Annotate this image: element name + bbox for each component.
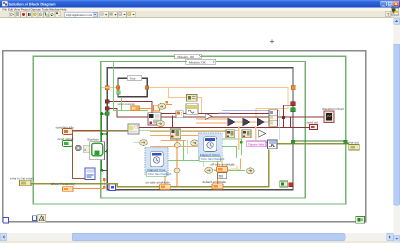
conversion oval node 1 bbox=[158, 103, 166, 109]
scaling icon A bbox=[226, 130, 235, 138]
wire: peach from case D to right edge bbox=[147, 88, 288, 118]
wire: orange mid horizontals bbox=[150, 132, 226, 147]
wire: light green left verticals bbox=[114, 62, 122, 111]
sine icon bbox=[186, 104, 198, 115]
svg-text:Time has Elapsed: Time has Elapsed bbox=[147, 172, 171, 176]
junction dots orange bbox=[103, 178, 106, 181]
svg-text:True: True bbox=[130, 76, 136, 80]
iteration terminal i (outer loop) bbox=[3, 218, 8, 223]
h-scroll thumb bbox=[72, 233, 345, 240]
toolbar help button bbox=[386, 11, 391, 16]
small orange box node bbox=[154, 105, 160, 111]
svg-text:Mission, OK: Mission, OK bbox=[189, 60, 207, 64]
h-scroll right arrow bbox=[387, 233, 394, 240]
svg-text:Time has Elapsed: Time has Elapsed bbox=[200, 157, 224, 161]
maroon tunnel squares loop C left bbox=[105, 100, 109, 103]
generator icon bbox=[128, 124, 139, 134]
mouse cursor bbox=[270, 40, 274, 44]
toolbar reorder button bbox=[127, 12, 136, 17]
waveform chart terminal bbox=[324, 111, 334, 122]
wire: peach into case D bbox=[102, 87, 117, 89]
wire: peach chain into generator icons bbox=[168, 88, 201, 113]
svg-text:default amplitude: default amplitude bbox=[203, 180, 227, 184]
while loop C (inner dark) bbox=[107, 68, 293, 190]
VI icon bbox=[391, 8, 398, 15]
wire: maroon U left vertical bbox=[172, 116, 174, 128]
svg-text:error in (no error): error in (no error) bbox=[10, 176, 34, 180]
dynamic data terminal icon bbox=[176, 111, 183, 118]
square wave VI icon bbox=[268, 140, 277, 149]
toolbar bbox=[0, 11, 400, 18]
wire: dark green right side bbox=[294, 140, 345, 142]
scaling icon B bbox=[242, 130, 251, 138]
wire: lavender dynamic bbox=[222, 111, 279, 140]
elapsed time 2 express VI bbox=[198, 133, 224, 161]
maximize button bbox=[387, 1, 393, 6]
off-axle amplitude constant bbox=[217, 167, 228, 172]
sampling info constant bbox=[63, 129, 73, 135]
DBL conversion box bbox=[218, 173, 227, 179]
toolbar step-over button bbox=[49, 12, 54, 17]
dark green junction dots bbox=[100, 112, 102, 114]
oval node right of elapsed1 top bbox=[174, 143, 180, 148]
menu bar bbox=[0, 7, 400, 11]
wire: peach stray corner bbox=[231, 165, 237, 168]
oval node right area bbox=[247, 168, 255, 174]
comparison triangle node bbox=[205, 113, 212, 119]
metronome wait icon bbox=[38, 214, 46, 222]
toolbar distribute button bbox=[109, 12, 118, 17]
toolbar align button bbox=[100, 12, 109, 17]
or gate circle bbox=[75, 145, 81, 151]
wire: orange vertical from wheel frequency bbox=[103, 179, 105, 189]
svg-text:on-axle amplitude: on-axle amplitude bbox=[146, 180, 171, 184]
v-scroll up arrow bbox=[394, 18, 400, 25]
bottom strip bbox=[0, 241, 400, 243]
title bar icon bbox=[2, 1, 8, 6]
add triangle 2 bbox=[243, 118, 250, 126]
svg-text:error out: error out bbox=[347, 141, 359, 145]
wire: maroon up to tunnel bbox=[283, 105, 291, 117]
vertical scrollbar bbox=[394, 18, 400, 243]
waveform generator icon upper bbox=[187, 95, 198, 102]
toolbar abort button bbox=[21, 12, 26, 17]
wire: brown cluster sampling info bbox=[73, 130, 128, 132]
on-axle amplitude constant bbox=[160, 184, 171, 189]
toolbar step-out button bbox=[55, 12, 60, 17]
build array node bbox=[269, 110, 277, 126]
svg-text:D0: D0 bbox=[219, 174, 224, 178]
oval node below elapsed2 bbox=[205, 167, 213, 173]
case structure A (outer green) bbox=[33, 56, 346, 204]
tunnel orange on loop C right bbox=[291, 85, 295, 89]
add triangle 3 bbox=[257, 118, 264, 126]
oval node below sine bbox=[191, 140, 199, 146]
what analysis enum bbox=[131, 106, 140, 111]
wheel frequency constant bbox=[63, 186, 73, 192]
reset signal constant bbox=[63, 140, 73, 146]
toolbar retain-values button bbox=[38, 12, 43, 17]
svg-text:?: ? bbox=[387, 12, 390, 17]
wire: maroon chart feed bbox=[277, 116, 325, 118]
v-scroll thumb bbox=[394, 44, 400, 205]
toolbar highlight button bbox=[32, 12, 37, 17]
square wave VI label bbox=[247, 141, 269, 147]
toolbar pause button bbox=[27, 12, 32, 17]
green tunnel on case D left bbox=[117, 91, 120, 94]
wire: maroon upper from tunnel bbox=[109, 101, 269, 113]
v-scroll down arrow bbox=[394, 235, 400, 242]
green junction dot bbox=[240, 141, 243, 144]
Boolean subVI bbox=[90, 142, 105, 160]
toolbar font combo bbox=[65, 12, 98, 17]
error out terminal bbox=[349, 145, 359, 150]
send out terminal bbox=[310, 124, 318, 129]
wire: maroon second from tunnel bbox=[110, 108, 270, 117]
conversion oval node 2 bbox=[156, 121, 164, 127]
svg-text:File Edit View Project Ope: File Edit View Project Operate Tools Win… bbox=[3, 7, 67, 11]
wire: maroon send out branch bbox=[283, 117, 309, 127]
toolbar resize button bbox=[118, 12, 127, 17]
tunnel orange on loop C left (top) bbox=[105, 86, 109, 90]
wire: orange vertical bands bbox=[239, 126, 256, 150]
elapsed time 1 express VI bbox=[145, 147, 172, 176]
wire: dark green vertical bbox=[100, 112, 102, 172]
wire: orange from wheel frequency constant bbox=[73, 188, 105, 190]
maroon tunnel on loop C right bbox=[291, 102, 295, 106]
case structure B (inner green) bbox=[101, 61, 305, 198]
toolbar step-into button bbox=[44, 12, 49, 17]
wire: light green elapsed1 bbox=[134, 140, 204, 167]
oval node left of elapsed1 bbox=[140, 140, 148, 146]
default amplitude constant bbox=[212, 184, 223, 189]
wire: orange default up bbox=[217, 160, 219, 183]
add triangle 1 bbox=[228, 118, 235, 126]
minimize button bbox=[381, 1, 387, 6]
dark green dots on loop C edge bbox=[106, 133, 108, 135]
svg-text:Square Wav: Square Wav bbox=[248, 142, 265, 146]
toolbar run-continuous button bbox=[15, 12, 20, 17]
wire: light green into grid icon bbox=[114, 110, 148, 112]
tunnel orange on case D right bbox=[145, 86, 149, 90]
grid icon bbox=[148, 113, 161, 125]
error in terminal bbox=[20, 180, 31, 186]
condition terminal (outer loop) bbox=[356, 217, 365, 224]
green tunnel loop C left bbox=[105, 112, 109, 116]
wire: orange triangle feeds bbox=[196, 119, 269, 123]
wire: orange off-axle bbox=[211, 158, 241, 169]
case B selector label bbox=[186, 59, 216, 64]
green tunnels right bbox=[291, 140, 294, 143]
svg-text:Boolean: Boolean bbox=[88, 138, 100, 142]
wire: light green long horizontal bbox=[103, 129, 239, 131]
while loop (outer) bbox=[3, 51, 366, 222]
scaling icon C bbox=[170, 129, 181, 139]
small triangle 4 bbox=[259, 130, 266, 137]
tunnel orange on case D left bbox=[116, 86, 120, 90]
iteration terminal i (loop C) bbox=[109, 184, 116, 190]
close button bbox=[393, 1, 399, 6]
horizontal scrollbar bbox=[0, 233, 394, 241]
toolbar run button bbox=[10, 12, 15, 17]
svg-text:x: x bbox=[84, 147, 86, 152]
svg-text:Mission, OK: Mission, OK bbox=[178, 55, 196, 59]
maroon junction dot bbox=[282, 116, 285, 119]
not-equal node bbox=[83, 146, 90, 153]
wire: orange big vertical bbox=[176, 135, 178, 187]
case A selector label bbox=[174, 54, 201, 59]
green tunnel on loop C right bbox=[291, 108, 295, 112]
svg-text:13pt Application Font: 13pt Application Font bbox=[66, 13, 92, 17]
case D selector label bbox=[127, 76, 142, 81]
wire: orange on-axle up bbox=[164, 175, 166, 184]
wire: light green elapsed2 out bbox=[214, 139, 245, 171]
wire: error olive to error out bbox=[277, 143, 350, 145]
h-scroll left arrow bbox=[0, 233, 7, 240]
case structure D (small black box) bbox=[118, 78, 147, 96]
wire: brown vertical down bbox=[73, 131, 85, 179]
wire: orange enum out bbox=[140, 105, 173, 109]
wire: dark green stubs to loop C bbox=[102, 114, 107, 171]
svg-text:Solution.vi Block Diagram: Solution.vi Block Diagram bbox=[9, 2, 57, 6]
wire: maroon generator output bbox=[139, 117, 291, 128]
svg-text:Wheel Frequency: Wheel Frequency bbox=[51, 182, 76, 186]
title bar bbox=[0, 0, 400, 7]
svg-text:off-axle amplitude: off-axle amplitude bbox=[211, 163, 236, 167]
wait ms numeric constant bbox=[32, 216, 36, 221]
dt unbundle icon bbox=[85, 168, 95, 179]
wire: error olive main bbox=[31, 150, 269, 187]
condition terminal (loop C) bbox=[280, 181, 293, 187]
oval node right of elapsed1 bottom bbox=[174, 168, 180, 173]
